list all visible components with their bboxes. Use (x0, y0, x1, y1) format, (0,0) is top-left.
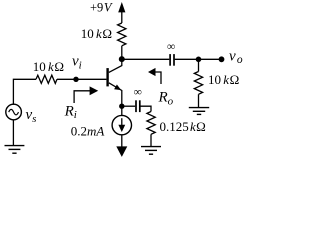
power arrow +9V supply (118, 2, 125, 12)
node vo terminal dot (219, 56, 225, 62)
transistor Q1 collector lead (109, 59, 122, 72)
svg-text:∞: ∞ (134, 87, 142, 99)
svg-text:0.125kΩ: 0.125kΩ (160, 119, 206, 134)
svg-text:0.2mA: 0.2mA (71, 124, 105, 139)
transistor Q1 emitter lead (109, 83, 122, 106)
wire load resistor bottom lead (198, 94, 200, 107)
ground under emitter resistor (141, 147, 161, 155)
svg-text:10kΩ: 10kΩ (33, 59, 64, 74)
arrow Ri measurement (74, 86, 98, 103)
node emitter junction dot (119, 104, 124, 109)
svg-text:+9V: +9V (90, 0, 113, 14)
ground under load resistor (189, 108, 209, 115)
wire collector node to capacitor (122, 58, 170, 60)
svg-text:Ri: Ri (64, 103, 77, 121)
source vs (sine) (6, 104, 22, 120)
node vi dot (73, 77, 78, 82)
wire base wire from source corner to transistor base (13, 79, 36, 105)
svg-text:vi: vi (72, 54, 82, 72)
svg-text:∞: ∞ (167, 41, 175, 53)
capacitor C-bypass plates (136, 100, 140, 112)
wire current source bottom lead (121, 135, 123, 147)
wire emitter resistor to ground (150, 134, 152, 146)
svg-text:10kΩ: 10kΩ (81, 26, 112, 41)
power arrow negative supply (down) (116, 146, 127, 157)
wire current source top lead (121, 106, 123, 115)
wire resistor to collector node (121, 46, 123, 60)
wire resistor to base (57, 78, 106, 80)
wire capacitor to vo terminal (175, 58, 219, 60)
svg-text:vo: vo (229, 48, 243, 66)
wire load resistor top lead (198, 59, 200, 71)
svg-text:Ro: Ro (158, 90, 174, 108)
resistor 0.125k emitter (147, 112, 155, 135)
resistor 10k collector (vertical) (118, 23, 126, 46)
transistor Q1 base bar (106, 68, 108, 86)
arrow Ro measurement (148, 68, 161, 84)
capacitor C-out plates (170, 54, 174, 66)
svg-text:10kΩ: 10kΩ (208, 72, 239, 87)
wire bypass capacitor to emitter resistor (141, 106, 152, 111)
node collector (junction dot) (119, 56, 125, 62)
resistor 10k load (vertical right) (194, 72, 202, 95)
svg-text:vs: vs (26, 107, 37, 125)
ground under source vs (5, 146, 25, 154)
current source I1 0.2mA (112, 115, 131, 134)
transistor Q1 emitter arrowhead (114, 85, 121, 91)
wire emitter node to bypass capacitor (122, 105, 135, 107)
node vo junction dot (196, 57, 202, 63)
wire source vs bottom lead (12, 120, 14, 145)
wire supply arrow lead (121, 9, 123, 23)
resistor 10k source (horizontal) (36, 75, 57, 83)
